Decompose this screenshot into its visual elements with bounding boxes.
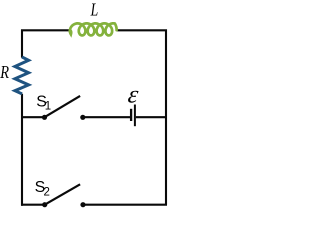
wire: middle left to S1 [22, 116, 45, 118]
switch S2 contact dot [80, 202, 85, 207]
wire: left side below resistor [21, 94, 23, 206]
svg-text:2: 2 [44, 186, 50, 198]
wire: top-right + right side [116, 30, 166, 204]
wire: bottom from S2 contact to right [83, 204, 167, 206]
switch S2 pivot dot [42, 202, 47, 207]
svg-text:R: R [0, 61, 9, 82]
switch S1 pivot dot [42, 115, 47, 120]
wire: bottom left to S2 [21, 204, 45, 206]
switch S2 blade (open) [45, 184, 80, 204]
switch S1 contact dot [80, 115, 85, 120]
battery negative plate (short) [130, 109, 132, 121]
battery positive plate (long) [134, 105, 136, 127]
wire: middle battery to right [136, 116, 166, 118]
svg-text:1: 1 [45, 101, 51, 113]
wire: middle S1 contact to battery [83, 116, 130, 118]
switch S1 blade (open) [45, 96, 81, 117]
inductor L coil (green) [70, 23, 117, 35]
svg-text:L: L [90, 1, 99, 20]
wire: top-left corner segment [22, 30, 70, 57]
resistor R (blue zigzag) [15, 57, 29, 94]
